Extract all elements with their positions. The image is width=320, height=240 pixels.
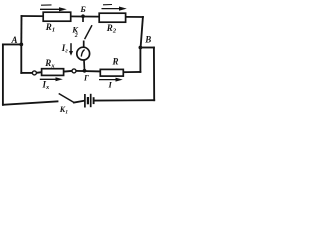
battery cell plate long 2 xyxy=(90,94,92,107)
svg-text:2: 2 xyxy=(74,33,78,39)
battery cell plate long 1 xyxy=(84,94,86,108)
current arrow I_g pointing down xyxy=(69,43,73,56)
wire corner to Rx left terminal xyxy=(21,72,32,74)
galvanometer G circle xyxy=(77,47,90,60)
wire right outer to node B xyxy=(140,47,154,49)
galvanometer needle xyxy=(81,50,84,57)
current arrow I below R xyxy=(99,78,123,82)
wire left vertical from top corner down to node A xyxy=(20,16,22,45)
wire switch to battery xyxy=(74,101,84,103)
resistor Rx xyxy=(42,69,64,76)
wire node B up to top wire xyxy=(141,17,143,48)
current arrow above R2 xyxy=(102,5,127,11)
resistor R1 xyxy=(43,12,70,21)
wire node A down to Rx branch xyxy=(20,44,22,73)
node A xyxy=(19,43,23,47)
current arrow I_x below Rx xyxy=(40,77,63,81)
resistor Rx left terminal circle xyxy=(32,71,36,75)
svg-text:A: A xyxy=(11,35,18,45)
switch K2 blade xyxy=(85,25,92,39)
node Б junction on top wire xyxy=(81,14,85,18)
current arrow above R1 xyxy=(40,5,67,11)
wire Rx right terminal to Rx box xyxy=(64,70,72,73)
stub below node Б xyxy=(82,16,84,22)
wire from node A left xyxy=(3,43,21,45)
wire resistor R left to galvanometer junction xyxy=(76,70,100,73)
resistor Rx right terminal circle xyxy=(72,69,76,73)
wire left outer vertical xyxy=(2,44,4,104)
svg-text:R: R xyxy=(112,57,119,67)
svg-text:I: I xyxy=(108,80,113,90)
svg-text:Г: Г xyxy=(83,74,89,83)
wire galvanometer to bottom junction xyxy=(83,60,86,71)
battery cell plate short 1 xyxy=(87,97,89,104)
resistor R2 xyxy=(99,13,125,22)
battery cell plate short 2 xyxy=(93,97,95,104)
wire node B down xyxy=(139,48,141,72)
wire to resistor R right side xyxy=(123,71,140,73)
switch K1 blade xyxy=(59,94,74,103)
wire bottom left to switch xyxy=(3,101,58,104)
resistor R xyxy=(100,69,123,76)
wire right outer vertical xyxy=(153,48,155,101)
svg-text:B: B xyxy=(144,34,151,44)
wire battery to bottom right corner xyxy=(95,99,155,101)
node B xyxy=(139,46,143,50)
wire Rx box left to terminal circle xyxy=(36,71,41,74)
junction dot below galvanometer xyxy=(83,69,87,73)
svg-text:Б: Б xyxy=(79,4,86,14)
wire switch to galvanometer xyxy=(83,41,85,48)
wire top horizontal A-corner to B-corner xyxy=(22,16,143,17)
